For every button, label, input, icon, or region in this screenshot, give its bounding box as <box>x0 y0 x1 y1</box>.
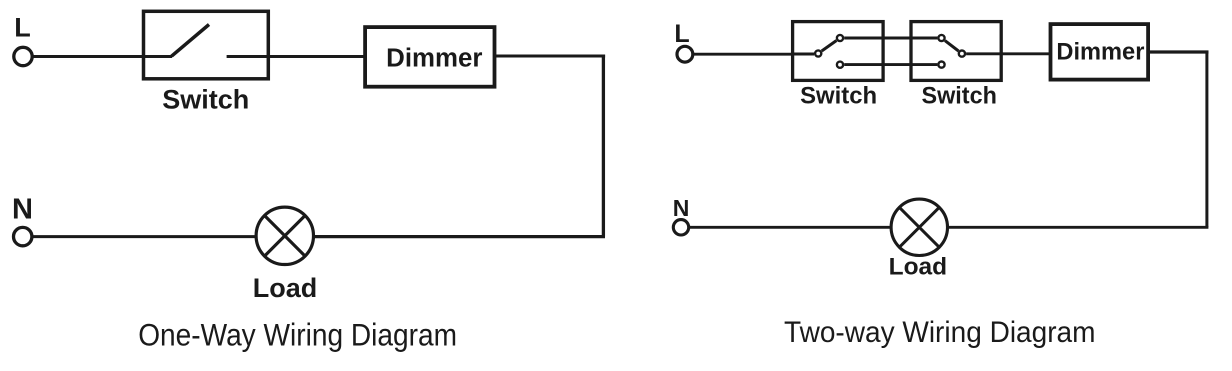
switch SW1 pole wire <box>142 55 172 58</box>
dimmer U2 box <box>1051 24 1149 80</box>
switch SW1 lever (open) <box>172 25 210 57</box>
switch SW3 box <box>911 22 1001 81</box>
svg-text:N: N <box>12 194 33 226</box>
lamp Load (two-way) circle <box>891 199 947 255</box>
switch SW2 bottom contact <box>837 62 843 68</box>
switch SW2 lever <box>822 41 837 52</box>
switch SW1 throw contact <box>227 55 270 58</box>
terminal L (two-way) <box>677 46 693 62</box>
switch SW3 bottom contact <box>938 62 944 68</box>
svg-text:L: L <box>674 20 689 48</box>
svg-text:Switch: Switch <box>922 82 997 109</box>
switch SW2 common contact <box>815 50 821 56</box>
wire N to load <box>32 235 257 238</box>
wire load to right corner (one-way) <box>314 235 606 238</box>
switch SW2 pole wire <box>791 53 814 56</box>
switch SW1 box <box>144 11 269 79</box>
svg-text:Two-way Wiring Diagram: Two-way Wiring Diagram <box>784 316 1096 349</box>
dimmer U1 box <box>365 27 494 87</box>
wire dimmer U2 to right corner <box>1148 50 1208 53</box>
wire L to switch SW1 <box>33 55 146 58</box>
lamp Load (two-way) cross stroke 1 <box>899 207 939 247</box>
terminal N (two-way) <box>673 220 688 235</box>
lamp Load (two-way) cross stroke 2 <box>899 207 939 247</box>
svg-text:One-Way Wiring Diagram: One-Way Wiring Diagram <box>138 317 457 353</box>
switch SW3 top contact <box>938 35 944 41</box>
svg-text:N: N <box>673 195 690 221</box>
switch SW2 top contact <box>837 35 843 41</box>
wire strap bottom (SW2 to SW3) <box>844 63 937 66</box>
lamp Load (one-way) circle <box>256 207 313 264</box>
wire switch SW1 to dimmer U1 <box>268 55 366 58</box>
switch SW2 box <box>793 22 884 81</box>
svg-text:Switch: Switch <box>162 85 249 115</box>
wire SW3 to dimmer U2 <box>966 52 1052 55</box>
wire dimmer U1 to right corner <box>495 55 606 58</box>
svg-text:Load: Load <box>253 273 318 303</box>
terminal L (one-way) <box>14 47 32 65</box>
svg-text:L: L <box>14 13 31 43</box>
wire N to load (two-way) <box>689 226 890 229</box>
wire L to switch SW2 <box>693 53 794 56</box>
lamp Load (one-way) cross stroke 2 <box>265 216 306 257</box>
wire load to right corner (two-way) <box>948 226 1208 229</box>
svg-text:Load: Load <box>889 254 948 281</box>
wire strap top (SW2 to SW3) <box>844 37 937 40</box>
svg-text:Dimmer: Dimmer <box>1056 39 1144 66</box>
terminal N (one-way) <box>14 227 32 245</box>
lamp Load (one-way) cross stroke 1 <box>265 216 306 257</box>
svg-text:Switch: Switch <box>800 82 877 109</box>
switch SW3 common contact <box>959 51 965 57</box>
switch SW3 lever <box>945 41 959 51</box>
svg-text:Dimmer: Dimmer <box>386 45 482 73</box>
wire right side vertical (one-way) <box>602 55 605 237</box>
wire right side vertical (two-way) <box>1205 51 1208 228</box>
